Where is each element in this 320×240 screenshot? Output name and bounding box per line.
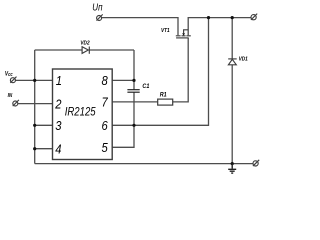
- svg-text:5: 5: [101, 140, 107, 155]
- svg-text:3: 3: [55, 118, 61, 133]
- svg-text:8: 8: [101, 73, 107, 88]
- svg-text:2: 2: [54, 97, 61, 112]
- svg-text:VD2: VD2: [80, 40, 89, 47]
- svg-text:Uп: Uп: [92, 1, 102, 12]
- svg-text:6: 6: [101, 118, 107, 133]
- svg-text:1: 1: [56, 73, 62, 88]
- svg-text:C1: C1: [142, 82, 149, 90]
- svg-text:Vсс: Vсс: [5, 71, 13, 78]
- svg-text:4: 4: [55, 142, 61, 157]
- svg-text:R1: R1: [160, 91, 167, 99]
- svg-text:IR2125: IR2125: [65, 105, 97, 118]
- svg-text:7: 7: [101, 95, 108, 110]
- svg-text:VT1: VT1: [161, 27, 170, 34]
- svg-text:IN: IN: [8, 93, 13, 100]
- svg-text:VD1: VD1: [239, 56, 248, 63]
